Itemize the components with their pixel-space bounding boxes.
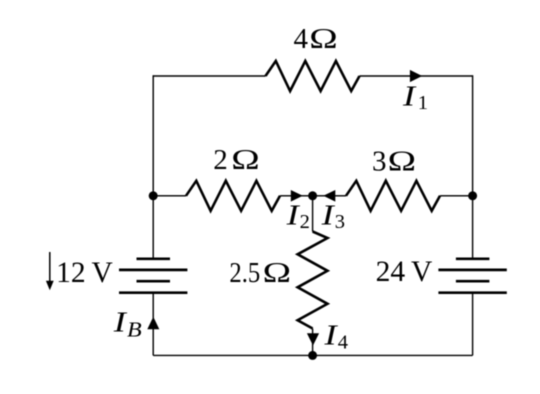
current arrow I2 (right, into center node) xyxy=(291,190,303,202)
svg-text:Ω: Ω xyxy=(309,23,337,55)
label I4 xyxy=(323,320,348,354)
svg-text:Ω: Ω xyxy=(263,257,291,289)
resistor R4 2.5-ohm (center vertical) xyxy=(298,232,328,329)
svg-text:I: I xyxy=(402,81,417,113)
battery V2 24V: short plate 1 xyxy=(456,257,490,260)
node C: right middle junction xyxy=(468,191,477,200)
battery V2 24V: long plate 2 xyxy=(438,291,506,294)
current arrow I3 (left, into center node) xyxy=(323,190,335,202)
wire center vertical: 2.5-ohm resistor to bottom node xyxy=(312,329,314,356)
wire bottom rail xyxy=(153,354,472,356)
battery V1 12V: long plate 1 xyxy=(119,269,187,272)
svg-text:I: I xyxy=(323,320,338,352)
svg-text:12 V: 12 V xyxy=(56,257,113,289)
battery V1 12V: short plate 1 xyxy=(137,257,171,260)
current arrow I1 (right, on top wire) xyxy=(410,70,422,82)
svg-text:I: I xyxy=(113,307,128,339)
battery V1 12V: short plate 2 xyxy=(137,280,171,283)
svg-text:3: 3 xyxy=(335,211,345,233)
label I2 xyxy=(285,200,309,234)
battery V2 24V: long plate 1 xyxy=(438,269,506,272)
svg-text:1: 1 xyxy=(418,92,428,114)
label I1 xyxy=(402,81,428,115)
battery V2 24V: short plate 2 xyxy=(456,280,490,283)
wire middle: center node to 3-ohm resistor xyxy=(313,195,346,197)
resistor R2 2-ohm (middle left) xyxy=(186,181,280,211)
current arrow IB (up, on left bottom wire) xyxy=(147,317,159,329)
wire middle: 2-ohm resistor to center node xyxy=(280,195,313,197)
svg-text:2.5: 2.5 xyxy=(229,257,260,289)
svg-text:Ω: Ω xyxy=(388,146,416,178)
wire right vertical: top corner to battery top xyxy=(472,75,474,258)
wire center vertical: center node to 2.5-ohm resistor xyxy=(312,196,314,232)
wire middle: 3-ohm resistor to right node xyxy=(440,195,473,197)
resistor R1 4-ohm (top) xyxy=(266,61,360,91)
svg-text:B: B xyxy=(127,318,142,342)
wire middle: left node to 2-ohm resistor xyxy=(153,195,186,197)
svg-text:Ω: Ω xyxy=(231,144,259,176)
voltage reference arrow (down) next to 12 V xyxy=(49,252,51,283)
wire left vertical: battery bottom to bottom corner xyxy=(152,293,154,356)
svg-text:I: I xyxy=(320,200,335,232)
svg-text:2: 2 xyxy=(213,144,228,176)
wire top: left corner to 4-ohm resistor xyxy=(153,75,265,77)
wire right vertical: battery bottom to bottom corner xyxy=(472,293,474,356)
wire top: 4-ohm resistor to right corner xyxy=(360,75,473,77)
svg-text:24 V: 24 V xyxy=(376,256,433,288)
battery V1 12V: long plate 2 xyxy=(119,291,187,294)
svg-text:4: 4 xyxy=(294,23,309,55)
node D: bottom center junction xyxy=(308,351,317,360)
svg-text:4: 4 xyxy=(338,331,348,353)
label IB xyxy=(113,307,142,342)
node A: left middle junction xyxy=(149,191,158,200)
current arrow I4 (down, above bottom node) xyxy=(307,333,319,345)
label I3 xyxy=(320,200,345,234)
node B: center middle junction xyxy=(308,191,317,200)
svg-text:3: 3 xyxy=(372,145,387,177)
svg-text:2: 2 xyxy=(300,211,310,233)
wire left vertical: top corner to battery top xyxy=(152,75,154,258)
resistor R3 3-ohm (middle right) xyxy=(346,181,440,211)
